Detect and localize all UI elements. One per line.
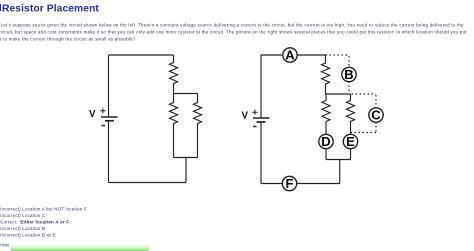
wire: below D <box>325 149 327 160</box>
resistor R1 (series) <box>170 55 178 94</box>
svg-text:A: A <box>285 48 295 63</box>
wire: top wire <box>109 54 174 56</box>
node A <box>283 48 297 63</box>
wire: left vertical bottom segment <box>260 122 262 184</box>
wire: bottom wire right of F <box>297 182 341 184</box>
node C <box>369 108 383 123</box>
resistor R6 (right parallel branch) <box>347 94 355 135</box>
clipped glyph sliver at left of title <box>0 4 2 11</box>
node line (top of parallel pair) <box>174 92 198 94</box>
svg-text:F: F <box>286 176 294 191</box>
svg-text:V: V <box>89 109 96 120</box>
svg-text:D: D <box>321 134 330 149</box>
battery V2 <box>242 110 270 127</box>
wire: left vertical bottom segment <box>107 121 109 183</box>
resistor R3 (right parallel branch) <box>194 94 202 158</box>
resistor R4 (series) <box>322 55 330 94</box>
wire: top wire right of A <box>297 54 326 56</box>
node line (bottom of parallel pair) <box>326 158 351 160</box>
node E <box>343 134 357 149</box>
node line (bottom of parallel pair) <box>174 156 198 158</box>
battery V1 <box>89 108 118 125</box>
wire: left vertical top segment <box>260 55 262 118</box>
wire: below E <box>349 149 351 160</box>
wire: top wire left of A <box>261 54 283 56</box>
dashed wire for C <box>351 94 377 133</box>
resistor R5 (left parallel branch) <box>322 94 330 135</box>
node line (top of parallel pair) <box>326 93 351 95</box>
dashed wire for B <box>326 55 350 94</box>
wire: drop from parallel pair <box>339 160 341 184</box>
wire: drop from parallel pair <box>185 158 187 183</box>
svg-text:V: V <box>242 111 249 122</box>
wire: bottom wire left of F <box>261 182 283 184</box>
node F <box>282 176 296 191</box>
svg-text:C: C <box>371 108 381 123</box>
svg-text:B: B <box>344 67 353 82</box>
wire: bottom wire <box>109 181 187 183</box>
node B <box>342 67 356 82</box>
resistor R2 (left parallel branch) <box>170 94 178 158</box>
svg-text:E: E <box>346 134 355 149</box>
node D <box>319 134 333 149</box>
wire: left vertical top segment <box>107 55 109 117</box>
